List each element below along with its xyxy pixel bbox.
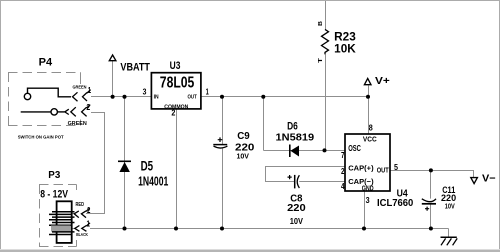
svg-text:2: 2 — [86, 103, 90, 112]
svg-text:78L05: 78L05 — [160, 74, 195, 91]
svg-text:VBATT: VBATT — [120, 61, 150, 73]
svg-text:IN: IN — [154, 95, 159, 101]
svg-text:GND: GND — [362, 184, 374, 193]
svg-text:1N4001: 1N4001 — [138, 173, 168, 188]
svg-text:VCC: VCC — [363, 135, 377, 144]
svg-text:P3: P3 — [48, 170, 60, 181]
svg-text:4: 4 — [341, 182, 345, 191]
svg-text:2: 2 — [171, 108, 176, 117]
svg-text:5: 5 — [394, 163, 399, 172]
svg-text:220: 220 — [287, 203, 306, 214]
svg-text:220: 220 — [441, 193, 456, 203]
svg-text:ICL7660: ICL7660 — [377, 198, 414, 209]
svg-text:7: 7 — [341, 151, 345, 160]
svg-text:BLACK: BLACK — [76, 232, 88, 237]
svg-text:SWITCH ON GAIN POT: SWITCH ON GAIN POT — [18, 135, 64, 140]
svg-text:1: 1 — [206, 87, 210, 96]
svg-text:CAP(+): CAP(+) — [348, 164, 374, 173]
svg-text:10V: 10V — [237, 152, 250, 161]
svg-text:V+: V+ — [375, 76, 390, 87]
svg-text:B: B — [318, 21, 324, 26]
svg-text:COMMON: COMMON — [164, 104, 188, 110]
svg-text:P4: P4 — [39, 57, 53, 69]
svg-text:GREEN: GREEN — [73, 85, 87, 91]
svg-text:OSC: OSC — [348, 144, 361, 153]
svg-text:2: 2 — [341, 167, 345, 176]
svg-text:10V: 10V — [445, 203, 455, 210]
svg-text:D5: D5 — [141, 157, 154, 173]
svg-text:RED: RED — [76, 202, 85, 208]
svg-text:1: 1 — [87, 220, 91, 229]
svg-text:1N5819: 1N5819 — [276, 133, 315, 144]
svg-text:U3: U3 — [170, 60, 181, 72]
svg-text:10V: 10V — [290, 217, 304, 226]
svg-text:1: 1 — [88, 86, 92, 95]
svg-text:V−: V− — [482, 174, 496, 185]
svg-text:OUT: OUT — [377, 165, 389, 174]
svg-text:C9: C9 — [237, 131, 250, 142]
svg-text:GREEN: GREEN — [68, 121, 87, 127]
svg-text:8 - 12V: 8 - 12V — [40, 189, 68, 201]
svg-text:10K: 10K — [334, 43, 356, 56]
svg-text:3: 3 — [366, 196, 371, 205]
svg-text:OUT: OUT — [188, 95, 198, 101]
svg-text:8: 8 — [369, 124, 374, 133]
svg-text:D6: D6 — [287, 121, 298, 133]
svg-text:2: 2 — [87, 206, 91, 215]
svg-text:3: 3 — [143, 87, 147, 96]
